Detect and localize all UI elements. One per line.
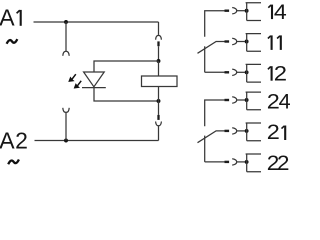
socket half of plug-in connection (coil bottom)	[156, 122, 162, 126]
svg-text:2: 2	[267, 120, 280, 144]
wire LED branch top rail	[94, 61, 159, 72]
node at terminal 22	[245, 160, 249, 164]
label 21	[267, 120, 280, 144]
AC symbol under A2	[8, 160, 19, 165]
node at terminal 14	[245, 9, 249, 13]
wire below coil	[158, 101, 160, 115]
terminal clamp 21	[246, 123, 261, 141]
wire LED branch bottom rail	[94, 88, 159, 101]
wire NC branch to terminal 22	[205, 161, 225, 163]
connector socket (24)	[232, 97, 237, 103]
pin half of plug-in connection (coil bottom)	[157, 115, 159, 120]
svg-text:A: A	[0, 128, 15, 154]
connector socket (11)	[232, 38, 237, 44]
wire to terminal 21	[237, 130, 245, 132]
node: coil top junction	[157, 59, 161, 63]
movable contact arm (11)	[198, 42, 225, 54]
connector pin (14)	[225, 9, 230, 11]
node at terminal 24	[245, 98, 249, 102]
digit 1 of A1	[17, 10, 21, 26]
connector socket (14)	[232, 8, 237, 14]
wire pin to coil node	[158, 46, 160, 61]
node at terminal 12	[245, 70, 249, 74]
LED D1 cathode bar	[82, 87, 106, 89]
connector pin (24)	[225, 99, 230, 101]
relay coil K1	[142, 76, 178, 87]
socket half of plug-in connection (coil top)	[156, 35, 162, 39]
connector socket (12)	[232, 69, 237, 75]
socket contact (base) on A2 stub	[63, 108, 69, 113]
wire to terminal 11	[237, 41, 245, 43]
wire out of coil bottom	[158, 87, 160, 102]
wire NO branch to terminal 24	[205, 100, 225, 126]
node: coil bottom junction	[157, 99, 161, 103]
svg-text:4: 4	[279, 90, 290, 114]
socket contact (base) on A1 stub	[63, 51, 69, 56]
svg-text:4: 4	[274, 0, 287, 24]
connector pin (12)	[225, 71, 230, 73]
terminal clamp 12	[246, 64, 261, 82]
label 14	[268, 5, 272, 20]
wire to terminal 14	[237, 10, 245, 12]
wire NC branch to terminal 12	[205, 71, 225, 73]
label 11	[268, 35, 281, 50]
label 22	[267, 151, 290, 175]
LED D1 triangle	[84, 72, 105, 87]
svg-text:2: 2	[15, 128, 28, 154]
label 24	[267, 89, 291, 113]
terminal clamp 14	[246, 3, 261, 21]
junction on A2 wire	[64, 139, 68, 143]
AC symbol under A1	[7, 39, 18, 44]
label 12	[268, 66, 272, 81]
LED light arrow 1	[69, 74, 76, 81]
wire to terminal 12	[237, 71, 245, 73]
svg-text:A: A	[0, 5, 15, 31]
svg-text:2: 2	[277, 151, 290, 175]
terminal label A2	[0, 128, 28, 154]
wire to terminal 22	[237, 161, 245, 163]
wire to terminal 24	[237, 99, 245, 101]
svg-text:2: 2	[274, 62, 287, 85]
wire stub up from A2 junction	[65, 112, 67, 140]
fixed contact line to 12	[204, 46, 206, 72]
wire NO branch to terminal 14	[205, 11, 225, 37]
connector pin (11)	[225, 40, 230, 42]
wire A1 down right side	[158, 22, 160, 35]
LED light arrow 2	[74, 81, 81, 88]
terminal clamp 24	[246, 92, 261, 110]
terminal clamp 11	[246, 34, 261, 52]
wire into coil top	[158, 61, 160, 76]
terminal label A1	[0, 5, 15, 31]
connector socket (22)	[232, 159, 237, 165]
movable contact arm (21)	[198, 131, 225, 143]
node at terminal 21	[245, 129, 249, 133]
connector pin (21)	[225, 130, 230, 132]
junction on A1 wire	[64, 20, 68, 24]
wire down to A2 rail	[158, 126, 160, 141]
wire A2 horizontal	[35, 140, 159, 142]
wire A1 horizontal	[34, 21, 159, 23]
wire stub down from A1 junction	[65, 22, 67, 51]
pin half of plug-in connection (coil top)	[157, 41, 159, 46]
terminal clamp 22	[246, 154, 261, 172]
connector socket (21)	[232, 128, 237, 134]
node at terminal 11	[245, 40, 249, 44]
fixed contact line to 22	[204, 136, 206, 162]
connector pin (22)	[225, 161, 230, 163]
